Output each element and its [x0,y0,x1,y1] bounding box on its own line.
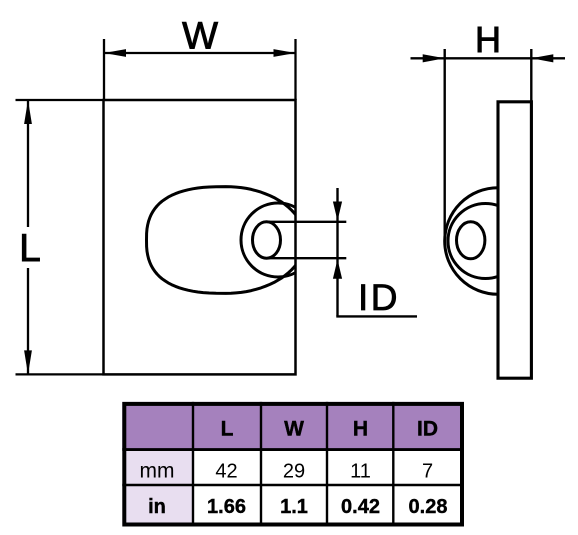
svg-text:1.1: 1.1 [280,496,308,518]
table first column lavender fill [122,450,193,525]
svg-text:0.28: 0.28 [409,496,448,518]
front view hole ellipse [253,222,281,258]
table inner vertical line 3 [326,402,328,527]
ID bottom arrowhead pointing up [333,259,342,278]
front view egg-shaped boss outline (clipped at plate edge) [147,187,306,294]
svg-text:42: 42 [215,461,237,483]
ID dimension vertical line [336,188,338,316]
L dimension line lower segment [27,268,29,374]
svg-text:W: W [182,15,218,57]
svg-text:mm: mm [140,460,175,483]
table inner vertical line 2 [260,402,262,527]
svg-text:L: L [221,418,234,441]
svg-text:L: L [19,227,41,270]
ID top arrowhead pointing down [333,202,342,221]
svg-text:W: W [284,418,304,441]
table row divider line [122,484,464,487]
side view hole ellipse [457,222,485,259]
W right arrowhead [274,49,296,57]
ID leader horizontal line [336,315,417,317]
H dimension line [411,57,566,59]
W dimension right extension line [294,39,296,100]
L bottom arrowhead [24,350,32,374]
L dimension top extension line [16,99,104,101]
W left arrowhead [104,49,126,57]
W dimension left extension line [103,39,105,100]
H dimension left extension line [444,49,446,247]
svg-text:H: H [475,19,501,60]
tube ID top extension line [267,221,347,223]
svg-text:ID: ID [417,418,438,441]
L top arrowhead [24,100,32,124]
svg-text:in: in [148,496,166,518]
front view plate rectangle [104,100,296,374]
side view boss inner circle (clipped at plate face) [448,204,523,279]
svg-text:H: H [353,418,368,441]
svg-text:1.66: 1.66 [207,496,246,518]
L dimension bottom extension line [16,373,104,375]
W dimension line [104,52,296,54]
side view boss large semicircle [445,188,498,295]
svg-text:7: 7 [422,461,433,483]
front view tube boss circle (clipped at plate edge) [241,203,315,277]
svg-text:0.42: 0.42 [341,496,380,518]
svg-text:29: 29 [283,461,305,483]
H left arrowhead pointing right [423,54,445,62]
H right arrowhead pointing left [531,54,553,62]
table header bottom line [122,448,464,451]
svg-text:11: 11 [350,461,371,483]
tube ID bottom extension line [267,257,347,259]
table header row purple fill [122,402,464,450]
table inner vertical line 1 [192,402,194,527]
svg-text:ID: ID [358,277,400,318]
table outer border [124,404,462,525]
table inner vertical line 4 [392,402,394,527]
H dimension right extension line [530,49,532,102]
side view plate rectangle [498,102,531,378]
L dimension line upper segment [27,100,29,227]
